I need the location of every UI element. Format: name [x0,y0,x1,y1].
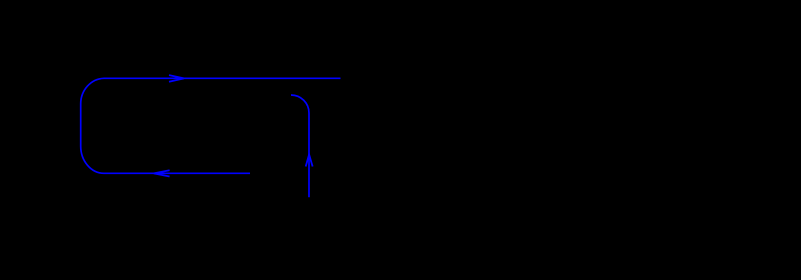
wire: blue branch-current line with curled top [291,95,309,197]
current arrow I1 (bottom wire, pointing left) [154,170,170,176]
wire: blue current-loop (top side, left side, bottom side with rounded corners) [81,78,341,173]
current arrow I2 (branch, pointing up) [306,155,313,167]
current arrow I1 (top wire, pointing right) [169,75,184,82]
